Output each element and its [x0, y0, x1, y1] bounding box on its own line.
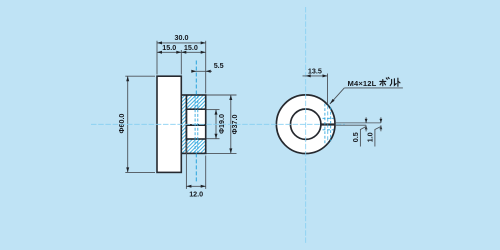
svg-text:0.5: 0.5: [351, 132, 360, 142]
dim 15.0+15.0 extension: [180, 50, 182, 75]
svg-text:M4×12L: M4×12L: [348, 79, 377, 88]
dim phi60 extension lines: [125, 75, 155, 77]
dim 0.5 arrows: [365, 117, 367, 123]
M4 axis centerline below hub (side view): [195, 153, 197, 183]
bore pocket (19 dia x 12 deep): [186, 109, 205, 139]
dim 13.5 line: [303, 75, 328, 77]
svg-text:13.5: 13.5: [308, 66, 322, 75]
M4 bolt hidden lines (front view): [324, 104, 326, 145]
outer circle (37 dia): [276, 95, 335, 154]
svg-text:1.0: 1.0: [365, 132, 374, 142]
M4 hole hidden lines (side view): [194, 96, 196, 154]
svg-text:15.0: 15.0: [162, 43, 176, 52]
svg-text:30.0: 30.0: [175, 33, 189, 42]
svg-text:Φ60.0: Φ60.0: [117, 114, 126, 134]
dim 12.0 extension lines: [185, 141, 187, 189]
dim 13.5 extension line: [327, 74, 329, 105]
katakana bolt (boruto): [380, 77, 400, 86]
dim phi19 line: [215, 110, 217, 139]
dim 30.0 extension lines: [156, 41, 158, 75]
slit extension lines: [335, 122, 381, 124]
bore circle (19 dia): [291, 109, 321, 139]
ho: [380, 80, 386, 82]
slit line in pocket: [187, 124, 206, 126]
svg-text:15.0: 15.0: [184, 43, 198, 52]
dim phi37 extension lines: [207, 94, 237, 96]
dim 0.5 leader: [360, 127, 366, 147]
dim phi19 extension lines: [207, 109, 220, 111]
dim 12.0 line: [186, 185, 205, 187]
dim 1.0 arrows: [380, 117, 382, 123]
M4 leader arrow: [330, 88, 344, 104]
disc (side view, 60 dia x 15): [157, 76, 181, 172]
ru: [390, 79, 391, 85]
dim 15.0+15.0 line: [157, 51, 206, 53]
svg-text:12.0: 12.0: [189, 190, 203, 199]
svg-text:5.5: 5.5: [214, 61, 224, 70]
dim 5.5 line: [192, 70, 212, 72]
svg-text:Φ19.0: Φ19.0: [217, 114, 226, 134]
hub hatched body (37 dia x 15): [181, 95, 205, 153]
hub divider line: [185, 95, 187, 153]
horizontal centerline (both views): [91, 123, 345, 125]
M4 axis centerline above hub (side view): [195, 61, 197, 96]
dakuten: [386, 78, 387, 79]
slit (front view): [321, 123, 336, 125]
dim 30.0 line: [157, 42, 206, 44]
front view vertical centerline: [305, 7, 307, 244]
to: [397, 78, 399, 86]
dim phi60 line: [127, 76, 129, 172]
dim 1.0 leader: [375, 127, 381, 147]
dim phi37 line: [230, 95, 232, 153]
